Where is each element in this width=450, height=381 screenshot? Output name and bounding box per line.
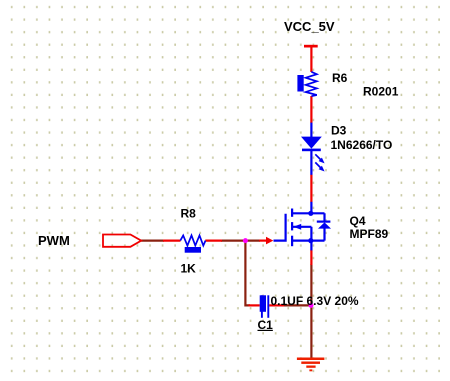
svg-text:R0201: R0201 [363, 85, 399, 99]
svg-text:D3: D3 [331, 124, 347, 138]
svg-text:0.1UF 6.3V 20%: 0.1UF 6.3V 20% [271, 294, 359, 308]
svg-text:PWM: PWM [38, 233, 70, 248]
svg-text:VCC_5V: VCC_5V [284, 19, 335, 34]
svg-text:R6: R6 [332, 71, 348, 85]
svg-text:MPF89: MPF89 [350, 227, 389, 241]
svg-text:1K: 1K [181, 262, 197, 276]
svg-text:C1: C1 [258, 318, 274, 332]
svg-text:1N6266/TO: 1N6266/TO [331, 138, 393, 152]
svg-text:R8: R8 [181, 207, 197, 221]
svg-text:Q4: Q4 [350, 214, 366, 228]
